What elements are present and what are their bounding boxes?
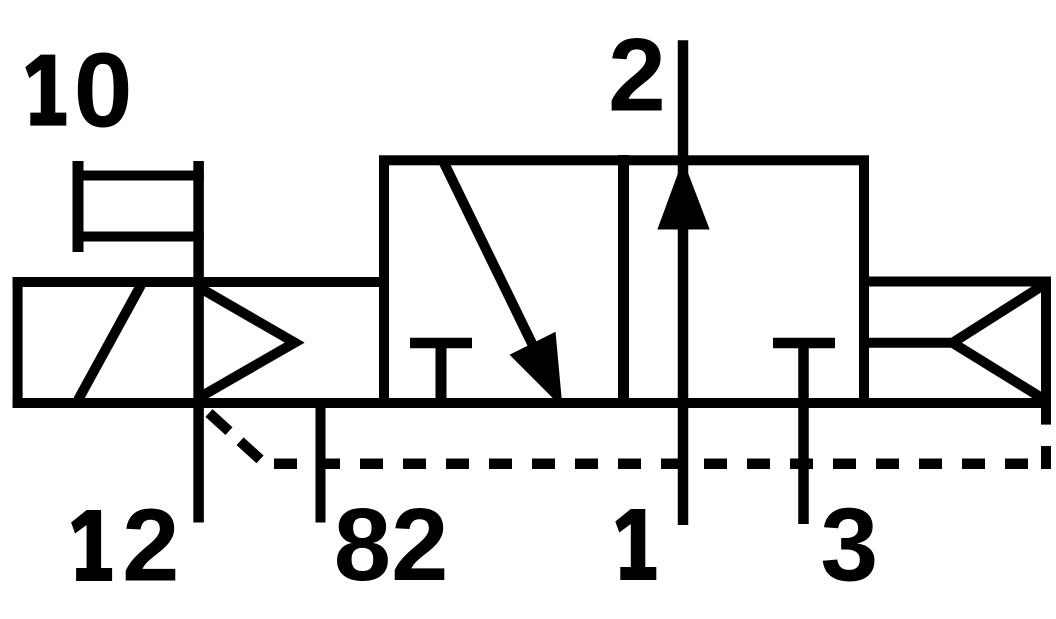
valve body outline xyxy=(384,160,864,403)
svg-text:2: 2 xyxy=(608,18,666,134)
pilot triangle xyxy=(201,289,295,397)
flow arrow shaft position 1 xyxy=(444,163,540,360)
port label 10 xyxy=(25,55,66,126)
solenoid slash xyxy=(78,285,141,400)
pilot dashed horizontal wire xyxy=(274,458,1028,469)
flow arrow head position 1 xyxy=(513,335,560,403)
svg-text:2: 2 xyxy=(122,488,179,603)
pilot return triangle xyxy=(953,285,1044,399)
solenoid box top edge xyxy=(13,277,389,287)
right pilot box right edge xyxy=(1041,277,1051,425)
port label 12 xyxy=(71,510,112,581)
pilot return center line xyxy=(864,338,953,348)
solenoid box left edge xyxy=(13,277,23,408)
manual override detent bottom bar xyxy=(73,232,204,242)
right pilot box top edge xyxy=(864,277,1051,287)
pilot dashed corner dash xyxy=(1041,446,1051,469)
svg-text:3: 3 xyxy=(820,488,878,604)
valve body center divider xyxy=(618,155,629,408)
port label 1 xyxy=(615,509,656,580)
svg-text:82: 82 xyxy=(334,487,449,602)
flow arrow head position 2 xyxy=(660,164,708,228)
wire: bottom rail xyxy=(13,398,1051,408)
blocked port T stem position 1 xyxy=(436,343,447,403)
pilot dashed diagonal wire xyxy=(209,413,264,463)
blocked port T bar position 1 xyxy=(410,338,472,349)
svg-text:0: 0 xyxy=(74,32,133,150)
port 82 wire xyxy=(316,403,326,523)
pilot divider / port 12 wire xyxy=(193,161,204,523)
manual override detent top bar xyxy=(73,171,204,181)
blocked port T stem / port 3 wire xyxy=(798,343,809,524)
blocked port T bar position 2 xyxy=(773,338,835,349)
manual override detent left bar xyxy=(73,161,84,252)
port 2 / port 1 wire xyxy=(678,40,689,525)
